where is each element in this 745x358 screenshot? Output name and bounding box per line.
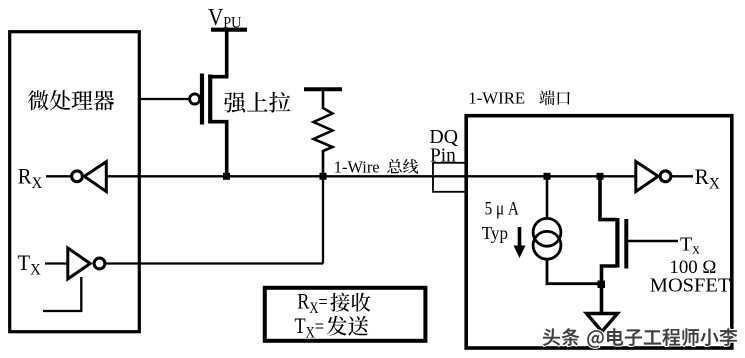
svg-text:5 μ A: 5 μ A — [485, 198, 519, 219]
wire TX inverter enable L-shape — [43, 277, 81, 311]
transistor Q1 PMOS gate bar — [200, 74, 204, 125]
label RX (left) — [18, 164, 42, 192]
power rail bar above resistor R1 — [304, 87, 342, 91]
node junction: MOSFET drain tap — [597, 173, 604, 180]
label 1-WIRE 端口 (port) — [468, 89, 570, 108]
wire Q1 drain down to bus — [210, 122, 227, 177]
legend line TX=发送 — [295, 314, 369, 342]
label 5 µ A — [485, 198, 519, 219]
label 1-Wire 总线 (bus) — [334, 157, 418, 176]
label TX (left) — [18, 250, 41, 278]
wire VPU bar to PMOS source — [210, 31, 227, 77]
label MOSFET — [650, 276, 731, 297]
1-WIRE port box — [466, 116, 732, 348]
inverter U2 triangle (TX transmit, points right) — [68, 248, 90, 279]
wire 1-Wire bus: RX inverter to right box edge — [106, 175, 467, 177]
wire U3 output to RX label — [671, 175, 693, 177]
inverter U1 bubble (RX receive) — [72, 171, 83, 182]
svg-text:MOSFET: MOSFET — [650, 276, 731, 297]
inverter U1 triangle (RX receive, points left) — [84, 162, 106, 192]
resistor R1 pullup (zigzag) — [314, 91, 333, 176]
wire Q2 source to bottom rail — [602, 266, 618, 284]
wire TX label to inverter — [45, 262, 68, 264]
current direction arrow (down) — [514, 227, 526, 258]
wire TX riser up to bus node — [322, 176, 324, 263]
wire TX inverter output to riser — [105, 262, 323, 264]
legend line RX=接收 — [297, 290, 370, 318]
transistor Q2 NMOS gate bar — [624, 219, 628, 269]
microprocessor box 微处理器 — [10, 32, 140, 332]
label RX (right) — [695, 163, 720, 192]
node junction: Q1 drain on bus — [223, 173, 230, 180]
transistor Q1 PMOS channel bar (strong pullup) — [208, 75, 212, 124]
current source I1 (two circles) — [533, 218, 561, 259]
label DQ — [429, 126, 458, 148]
label VPU — [208, 4, 241, 32]
node junction: current source tap — [544, 173, 551, 180]
label Typ — [482, 223, 509, 243]
node junction: resistor/TX riser on bus — [320, 173, 327, 180]
inverter U3 bubble — [660, 171, 671, 182]
wire gate lead from microprocessor box to Q1 gate bubble — [139, 98, 190, 100]
inverter U2 bubble — [94, 258, 105, 269]
wire current source to bottom rail — [547, 259, 601, 284]
watermark 头条@电子工程师小李 — [543, 328, 738, 348]
wire bus to current source — [546, 176, 549, 219]
svg-text:1-Wire: 1-Wire — [334, 157, 380, 176]
label 强上拉 (strong pullup) — [224, 92, 290, 113]
wire down to ground — [600, 284, 604, 314]
label TX (right, gate) — [680, 234, 700, 258]
wire bus down to MOSFET drain — [600, 176, 617, 219]
power rail VPU bar — [211, 28, 247, 32]
transistor Q1 gate bubble — [190, 94, 200, 104]
label 100 Ω — [669, 257, 716, 278]
label Pin — [430, 144, 456, 166]
wire bus inside port box — [467, 175, 636, 177]
wire RX label to inverter bubble — [46, 175, 71, 177]
DQ pin square on box edge — [433, 163, 466, 192]
wire Q2 gate lead to TX label — [628, 240, 678, 243]
node junction: source/rail/ground — [598, 281, 606, 289]
svg-text:Typ: Typ — [482, 223, 509, 243]
ground symbol (open triangle) — [587, 314, 618, 332]
transistor Q2 NMOS channel bar — [615, 218, 619, 268]
svg-text:1-WIRE: 1-WIRE — [468, 89, 525, 108]
legend box — [265, 288, 426, 341]
inverter U3 triangle (port RX) — [636, 162, 658, 192]
label 微处理器 (microprocessor) — [28, 90, 114, 110]
